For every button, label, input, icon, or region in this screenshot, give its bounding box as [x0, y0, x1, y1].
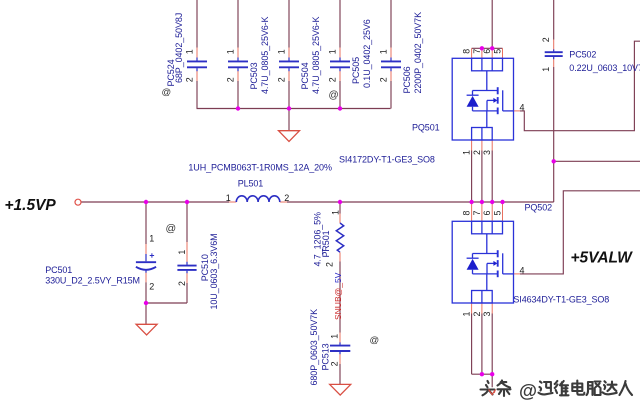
power arrow fragment visible through watermark — [489, 390, 496, 395]
svg-text:+1.5VP: +1.5VP — [5, 197, 57, 214]
wire top feed PC505 — [339, 0, 341, 48]
svg-text:1: 1 — [226, 193, 231, 203]
svg-text:SI4172DY-T1-GE3_SO8: SI4172DY-T1-GE3_SO8 — [339, 155, 435, 165]
svg-text:2: 2 — [328, 77, 338, 82]
svg-text:PQ501: PQ501 — [412, 123, 440, 133]
wire PC502 feed from top — [553, 0, 555, 40]
svg-text:7: 7 — [472, 211, 482, 216]
pin stubs PR501 — [339, 214, 341, 224]
wire main +1.5VP rail — [81, 201, 229, 203]
junction dot PC501 tie — [144, 301, 148, 305]
wire PC513 ground stem — [339, 364, 341, 384]
capacitor PC506 — [381, 58, 401, 72]
svg-text:2: 2 — [541, 37, 551, 42]
svg-text:8: 8 — [462, 211, 472, 216]
capacitor PC524 — [187, 58, 207, 72]
svg-text:PC506: PC506 — [402, 66, 412, 93]
svg-text:1: 1 — [330, 334, 340, 339]
wire PC501 drop — [145, 202, 147, 244]
power arrow PQ502 bottom — [488, 389, 497, 396]
svg-text:2: 2 — [284, 193, 289, 203]
svg-text:4: 4 — [520, 266, 525, 276]
svg-text:2: 2 — [379, 77, 389, 82]
wire PQ501 pin4 net — [520, 41, 640, 131]
wire PC501 PC510 bottom tie — [146, 302, 187, 304]
capacitor PC505 — [330, 58, 350, 72]
svg-text:680P_0603_50V7K: 680P_0603_50V7K — [309, 309, 319, 386]
junction dots PQ502 bottom tie — [480, 372, 484, 376]
transistor Q=PQ501 — [452, 58, 513, 140]
wire top feed PC524 — [196, 0, 198, 48]
ground PC501 — [136, 324, 157, 335]
wire PR501 drop — [339, 202, 341, 214]
svg-text:1: 1 — [541, 67, 551, 72]
svg-text:3: 3 — [482, 312, 492, 317]
capacitor PC502 — [545, 49, 563, 59]
svg-text:1: 1 — [277, 49, 287, 54]
svg-text:4.7U_0805_25V6-K: 4.7U_0805_25V6-K — [260, 16, 270, 94]
svg-text:1: 1 — [379, 49, 389, 54]
pin stubs PC510 — [186, 242, 188, 262]
svg-text:PC505: PC505 — [351, 57, 361, 84]
wire PC510 drop — [186, 202, 188, 242]
svg-text:5: 5 — [493, 211, 503, 216]
svg-text:@: @ — [329, 90, 339, 101]
wire top feed PC504 — [288, 0, 290, 48]
pin stub PQ501 pin4 — [514, 110, 521, 112]
pin stubs PC513 — [339, 333, 341, 343]
wire PQ501 pins 1-3 drop to rail — [471, 151, 473, 203]
svg-text:@: @ — [166, 223, 177, 235]
svg-text:@: @ — [519, 380, 537, 401]
svg-text:PC502: PC502 — [569, 50, 596, 60]
svg-text:1: 1 — [462, 312, 472, 317]
wire ground stem top — [288, 109, 290, 131]
svg-text:2200P_0402_50V7K: 2200P_0402_50V7K — [413, 12, 423, 94]
svg-text:PL501: PL501 — [238, 179, 264, 189]
svg-text:2: 2 — [226, 77, 236, 82]
pin stubs PC505 — [339, 48, 341, 58]
junction dots PQ501 tie — [480, 46, 484, 50]
capacitor PC503 — [228, 58, 248, 72]
svg-text:@: @ — [162, 87, 172, 98]
svg-text:6: 6 — [482, 49, 492, 54]
svg-text:SI4634DY-T1-GE3_SO8: SI4634DY-T1-GE3_SO8 — [513, 295, 609, 305]
svg-text:4.7U_0805_25V6-K: 4.7U_0805_25V6-K — [311, 16, 321, 94]
ground PC513 — [330, 384, 351, 395]
svg-text:2: 2 — [149, 282, 154, 292]
svg-text:3: 3 — [482, 150, 492, 155]
wire PQ501 gate feed from top — [491, 0, 493, 48]
wire top feed PC506 — [390, 0, 392, 48]
svg-text:10U_0603_6.3V6M: 10U_0603_6.3V6M — [209, 233, 219, 309]
svg-text:0.1U_0402_25V6: 0.1U_0402_25V6 — [362, 19, 372, 88]
svg-text:330U_D2_2.5VY_R15M: 330U_D2_2.5VY_R15M — [45, 275, 140, 285]
svg-text:@: @ — [370, 335, 380, 346]
pin stubs PC503 — [237, 48, 239, 58]
capacitor PC504 — [279, 58, 299, 72]
capacitor PC501 polarized — [136, 254, 156, 273]
watermark white glow — [481, 380, 633, 401]
svg-text:2: 2 — [177, 281, 187, 286]
svg-text:0.22U_0603_10V7K: 0.22U_0603_10V7K — [569, 63, 640, 73]
pin stub PQ502 pin4 — [514, 273, 521, 275]
junction dot PC502 branch — [552, 159, 556, 163]
svg-text:1: 1 — [462, 150, 472, 155]
svg-text:SNUB@_5V: SNUB@_5V — [333, 272, 343, 320]
wire top feed PC503 — [237, 0, 239, 48]
capacitor PC510 — [177, 262, 196, 273]
wire PQ501 top tie — [472, 47, 503, 49]
port +1.5VP circle — [75, 199, 81, 205]
svg-text:1: 1 — [226, 49, 236, 54]
pin stubs PC502 — [553, 40, 555, 50]
svg-text:PQ502: PQ502 — [525, 203, 553, 213]
svg-text:+5VALW: +5VALW — [571, 250, 634, 267]
junction dots main rail — [144, 200, 148, 204]
junction dots top bus — [236, 106, 240, 110]
svg-text:1: 1 — [331, 210, 341, 215]
pin stubs PQ502 top — [471, 202, 473, 222]
svg-text:1: 1 — [177, 250, 187, 255]
pin stubs PQ502 bottom — [471, 303, 473, 314]
svg-text:6: 6 — [482, 211, 492, 216]
svg-text:5: 5 — [493, 49, 503, 54]
wire PQ502 bottom pins drop — [471, 314, 473, 375]
resistor PR501 — [336, 223, 343, 252]
svg-text:PC501: PC501 — [45, 265, 72, 275]
svg-text:2: 2 — [325, 262, 335, 267]
svg-text:PC504: PC504 — [300, 62, 310, 89]
inductor PL501 — [236, 196, 279, 202]
pin stubs PC506 — [390, 48, 392, 58]
svg-text:1: 1 — [328, 49, 338, 54]
svg-text:7: 7 — [472, 49, 482, 54]
capacitor PC513 — [330, 342, 350, 354]
pin stubs PC501 — [145, 244, 147, 254]
svg-text:4: 4 — [520, 103, 525, 113]
wire +5VALW net — [520, 191, 640, 274]
wire top bus — [197, 108, 391, 110]
svg-text:1UH_PCMB063T-1R0MS_12A_20%: 1UH_PCMB063T-1R0MS_12A_20% — [188, 163, 332, 173]
svg-text:2: 2 — [472, 150, 482, 155]
wire +5VALW branch right at PC502 junction — [554, 160, 640, 162]
svg-text:1: 1 — [149, 233, 154, 243]
plus sign PC501 — [150, 253, 154, 257]
svg-text:PR501: PR501 — [321, 230, 331, 257]
svg-text:2: 2 — [185, 77, 195, 82]
svg-text:PC503: PC503 — [249, 62, 259, 89]
svg-text:8: 8 — [462, 49, 472, 54]
pin stubs PC504 — [288, 48, 290, 58]
pin stubs PC524 — [196, 48, 198, 58]
pin stubs PQ501 top — [471, 48, 473, 58]
svg-text:68P_0402_50V8J: 68P_0402_50V8J — [174, 13, 184, 83]
pin stubs PL501 — [229, 201, 236, 203]
svg-text:2: 2 — [472, 312, 482, 317]
wire PC501 ground stem — [145, 303, 147, 324]
svg-text:1: 1 — [185, 49, 195, 54]
wire PQ502 bottom power stem — [491, 374, 493, 389]
svg-text:2: 2 — [277, 77, 287, 82]
wire PQ502 bottom tie — [472, 373, 493, 375]
pin stubs PQ501 bottom — [471, 140, 473, 151]
transistor Q=PQ502 — [452, 221, 513, 303]
svg-text:2: 2 — [330, 361, 340, 366]
